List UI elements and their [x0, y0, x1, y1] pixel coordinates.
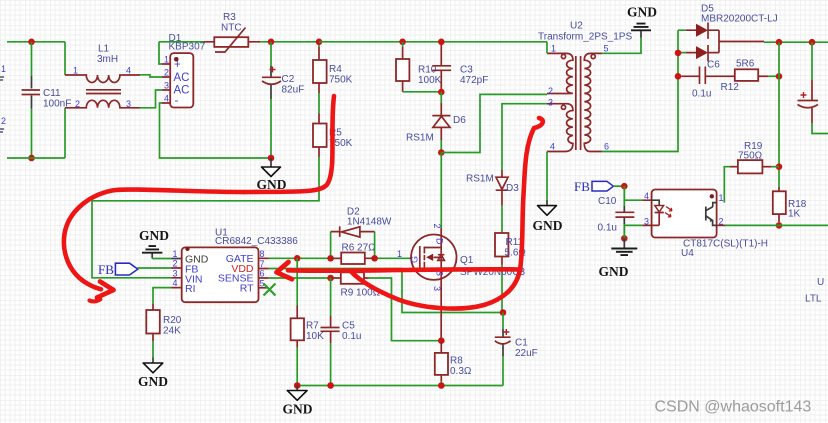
wire R19 column from output rail [778, 42, 780, 187]
wire rail D1 to R3 [159, 41, 204, 43]
wire R19 left to U4 pin1 [724, 167, 730, 203]
svg-text:472pF: 472pF [460, 75, 488, 86]
svg-text:2: 2 [164, 68, 169, 78]
svg-text:+: + [174, 59, 181, 71]
svg-text:6: 6 [260, 269, 265, 279]
junction dot R9 left [327, 275, 334, 282]
svg-text:R20: R20 [163, 315, 182, 326]
wire U4 pin3 to C10 bottom [624, 225, 642, 238]
junction dot source node [438, 337, 445, 344]
svg-text:1: 1 [719, 193, 724, 203]
junction dot VDD C1 [500, 309, 507, 316]
svg-text:4: 4 [550, 142, 555, 152]
wire drain node to U2 pin2 [441, 94, 547, 152]
wire L1 pin1 riser [64, 42, 66, 75]
svg-text:82uF: 82uF [282, 85, 305, 96]
resistor R8 [435, 342, 448, 386]
diode D6 [432, 92, 450, 140]
junction dot output rail R19 column [776, 39, 783, 46]
svg-text:750Ω: 750Ω [738, 151, 763, 162]
wire L1 pin4 to D1 pin2 [140, 75, 162, 77]
svg-text:U: U [817, 277, 824, 288]
svg-text:FB: FB [574, 179, 590, 194]
svg-text:3: 3 [432, 286, 442, 291]
junction dot R18 bottom [776, 222, 783, 229]
svg-text:MBR20200CT-LJ: MBR20200CT-LJ [701, 14, 778, 25]
junction dot gate R7 [294, 255, 301, 262]
junction dot R6 right [371, 255, 378, 262]
wire U2 pin4 to GND [546, 152, 548, 201]
transistor Q1 [410, 228, 457, 342]
svg-text:D: D [435, 238, 445, 245]
svg-text:CT817C(SL)(T1)-H: CT817C(SL)(T1)-H [683, 239, 768, 250]
junction dot output rail cap column [809, 39, 816, 46]
svg-text:RI: RI [185, 283, 196, 295]
svg-text:R4: R4 [329, 64, 342, 75]
wire rail to D1 pin1 [159, 42, 162, 64]
resistor R9 [331, 272, 442, 340]
junction dot FB node [621, 183, 628, 190]
ground GND under U2 pin4 [538, 200, 557, 215]
svg-text:R12: R12 [721, 82, 740, 93]
svg-text:NTC: NTC [221, 23, 242, 34]
wire D6 to drain junction [440, 140, 442, 153]
svg-text:D6: D6 [453, 115, 466, 126]
svg-text:GND: GND [283, 402, 313, 417]
wire L1 pin2 dropper [64, 108, 66, 158]
svg-text:GND: GND [139, 228, 169, 243]
ground GND under C10 (earth) [611, 238, 637, 255]
svg-text:3: 3 [644, 217, 649, 227]
resistor R4 [313, 47, 327, 124]
svg-text:C10: C10 [598, 196, 617, 207]
IC U1 [172, 247, 269, 303]
ground GND top (earth) [631, 24, 651, 38]
thermistor R3 [204, 28, 260, 53]
svg-text:4: 4 [644, 191, 649, 201]
diode D3 [496, 170, 509, 233]
svg-text:4: 4 [173, 278, 178, 288]
svg-text:-: - [175, 95, 179, 107]
wire rail jog to U2 pin1 [546, 42, 548, 54]
svg-text:Transform_2PS_1PS: Transform_2PS_1PS [538, 32, 632, 43]
resistor R10 [396, 42, 409, 92]
junction dot D6 top [438, 89, 445, 96]
resistor R19 [730, 160, 779, 173]
svg-text:R7: R7 [306, 321, 319, 332]
svg-text:2: 2 [548, 86, 553, 96]
resistor R6 [331, 253, 375, 265]
svg-text:R6 27Ω: R6 27Ω [342, 243, 377, 254]
wire rail to R10 C3 [319, 41, 547, 43]
svg-text:RS1M: RS1M [406, 133, 434, 144]
capacitor C3 [432, 45, 451, 91]
svg-text:R8: R8 [450, 356, 463, 367]
capacitor C2 [262, 42, 281, 99]
svg-text:1: 1 [173, 249, 178, 259]
junction dot GND rail R7 [294, 382, 301, 389]
svg-text:1K: 1K [788, 209, 801, 220]
red marker left swoosh [64, 96, 334, 289]
junction dot D5 anode [675, 50, 682, 57]
junction dot R12 right [776, 73, 783, 80]
transformer U2 [547, 53, 602, 151]
resistor R18 [773, 187, 786, 222]
inductor L1 [65, 75, 140, 108]
wire D5 output rail [764, 41, 828, 43]
junction dot C3 top [438, 39, 445, 46]
ground GND above U1 (earth) [142, 246, 172, 258]
svg-text:RS1M: RS1M [466, 174, 494, 185]
wire output cap bottom exit [812, 123, 828, 134]
wire C2 bottom [270, 99, 272, 158]
svg-text:4: 4 [164, 94, 169, 104]
junction dot R19 right [776, 163, 783, 170]
svg-text:6: 6 [604, 142, 609, 152]
wire GATE row [269, 257, 410, 259]
dual diode D5 [686, 23, 764, 62]
svg-text:24K: 24K [163, 326, 181, 337]
svg-text:CSDN @whaosoft143: CSDN @whaosoft143 [655, 399, 812, 416]
capacitor C6 [681, 67, 735, 85]
red marker loop around Q1 [351, 270, 520, 309]
wire GND rail bottom [297, 385, 503, 387]
svg-text:C2: C2 [282, 74, 295, 85]
svg-text:1: 1 [73, 66, 78, 76]
svg-text:C5: C5 [342, 321, 355, 332]
junction dot C6 left [675, 73, 682, 80]
svg-text:3: 3 [548, 98, 553, 108]
svg-text:1: 1 [1, 64, 6, 74]
svg-text:R3: R3 [223, 12, 236, 23]
resistor R11 [495, 233, 508, 313]
optocoupler U4 [642, 190, 716, 238]
wire return rail right [725, 224, 828, 226]
junction dot R4 top [316, 39, 323, 46]
svg-text:22uF: 22uF [515, 348, 538, 359]
red marker left-pointing arrowhead at U1 [277, 262, 293, 279]
svg-text:3mH: 3mH [97, 54, 118, 65]
junction dot C2 top [268, 39, 275, 46]
wire U4 pin4 from FB node [624, 186, 642, 200]
wire R7 column [296, 258, 298, 305]
resistor R12 [735, 69, 779, 81]
capacitor C5 [321, 278, 340, 386]
wire C11 column top [31, 42, 33, 76]
svg-text:C1: C1 [515, 338, 528, 349]
wire R10 bottom to C3 bottom [403, 91, 442, 93]
junction dot C11 bottom [28, 155, 35, 162]
junction dot R10 top [399, 39, 406, 46]
svg-text:750K: 750K [329, 75, 353, 86]
svg-text:2: 2 [1, 116, 6, 126]
svg-text:3: 3 [164, 81, 169, 91]
svg-text:0.1u: 0.1u [342, 331, 361, 342]
svg-text:3: 3 [173, 268, 178, 278]
resistor R20 [146, 304, 160, 358]
svg-text:U4: U4 [681, 248, 694, 259]
capacitor C7 output [798, 80, 819, 123]
bridge rectifier D1 [162, 53, 193, 107]
svg-text:8: 8 [260, 249, 265, 259]
red marker right loop [520, 118, 543, 270]
svg-text:D3: D3 [506, 183, 519, 194]
capacitor C11 [22, 76, 40, 109]
wire SENSE row [269, 277, 331, 279]
red marker left arrowhead [97, 282, 114, 298]
svg-text:7: 7 [260, 259, 265, 269]
wire drain node down to Q1 [440, 153, 442, 229]
svg-text:5: 5 [604, 44, 609, 54]
wire U1 pin4 to R20 [153, 288, 172, 304]
red marker arrow tail squiggle [90, 299, 101, 301]
svg-text:5R6: 5R6 [736, 59, 755, 70]
wire U2 pin3 to D3 [502, 104, 547, 170]
wire rail R4 top [318, 42, 320, 47]
svg-text:2: 2 [173, 259, 178, 269]
net flag FB right [592, 181, 624, 191]
wire bottom rail left [7, 157, 65, 159]
capacitor C10 [615, 186, 634, 238]
net flag FB left [115, 263, 171, 275]
no-connect X on RT [264, 284, 276, 296]
svg-text:100K: 100K [418, 75, 442, 86]
red marker bar over VDD wire [288, 269, 521, 271]
wire U2 pin5 to GND [602, 38, 641, 54]
capacitor C1 [495, 313, 511, 386]
wire L1 pin3 to D1 pin3 [140, 90, 162, 108]
diode D2 [331, 226, 375, 255]
svg-text:LTL: LTL [805, 294, 822, 305]
svg-text:0.1u: 0.1u [598, 223, 617, 234]
ground GND under C2 [262, 158, 281, 177]
wire VDD row [269, 269, 504, 313]
junction dot GND rail R8 [438, 382, 445, 389]
resistor R7 [291, 306, 304, 386]
junction dot R6 left [327, 255, 334, 262]
svg-text:0.1u: 0.1u [692, 89, 711, 100]
svg-text:1N4148W: 1N4148W [347, 217, 392, 228]
svg-text:GND: GND [627, 5, 657, 20]
svg-text:C6: C6 [707, 60, 720, 71]
wire C11 column bottom [31, 109, 33, 159]
junction dot C10 bottom [621, 235, 628, 242]
svg-text:FB: FB [98, 262, 114, 277]
junction dot C11 top [28, 39, 35, 46]
svg-text:GND: GND [599, 264, 629, 279]
svg-text:AC: AC [174, 72, 190, 84]
wire output cap column [811, 42, 813, 80]
svg-text:Q1: Q1 [460, 255, 474, 266]
svg-text:0.3Ω: 0.3Ω [450, 366, 472, 377]
wire U4 pin2 stub [717, 224, 726, 226]
wire R5 to VIN run [92, 157, 319, 278]
svg-text:4: 4 [126, 66, 131, 76]
wire D1 pin4 down to GND rail [160, 103, 272, 158]
svg-text:KBP307: KBP307 [169, 42, 206, 53]
junction dot C2 GND [268, 155, 275, 162]
wire top rail left [7, 41, 65, 43]
svg-text:2: 2 [432, 224, 442, 229]
svg-text:1: 1 [397, 249, 402, 259]
svg-text:2: 2 [75, 99, 80, 109]
ground GND under R20 [143, 358, 163, 373]
svg-text:U2: U2 [570, 21, 583, 32]
svg-text:CR6842_C433386: CR6842_C433386 [215, 236, 298, 247]
junction dot drain node [438, 149, 445, 156]
wire R3 to C2 junction [260, 41, 319, 43]
svg-text:3: 3 [126, 99, 131, 109]
svg-text:10K: 10K [306, 331, 324, 342]
ground GND bottom center [287, 386, 307, 401]
svg-text:C11: C11 [43, 88, 61, 99]
resistor R5 [313, 124, 327, 158]
svg-text:RT: RT [240, 282, 254, 294]
svg-text:L1: L1 [98, 44, 110, 55]
svg-text:C3: C3 [460, 65, 473, 76]
svg-text:1: 1 [551, 44, 556, 54]
svg-text:GND: GND [138, 374, 168, 389]
svg-text:GND: GND [533, 218, 563, 233]
svg-text:1: 1 [164, 55, 169, 65]
wire U2 pin6 to D5 anodes [602, 30, 686, 151]
svg-text:G: G [410, 256, 420, 263]
junction dot GND rail C5 [327, 382, 334, 389]
